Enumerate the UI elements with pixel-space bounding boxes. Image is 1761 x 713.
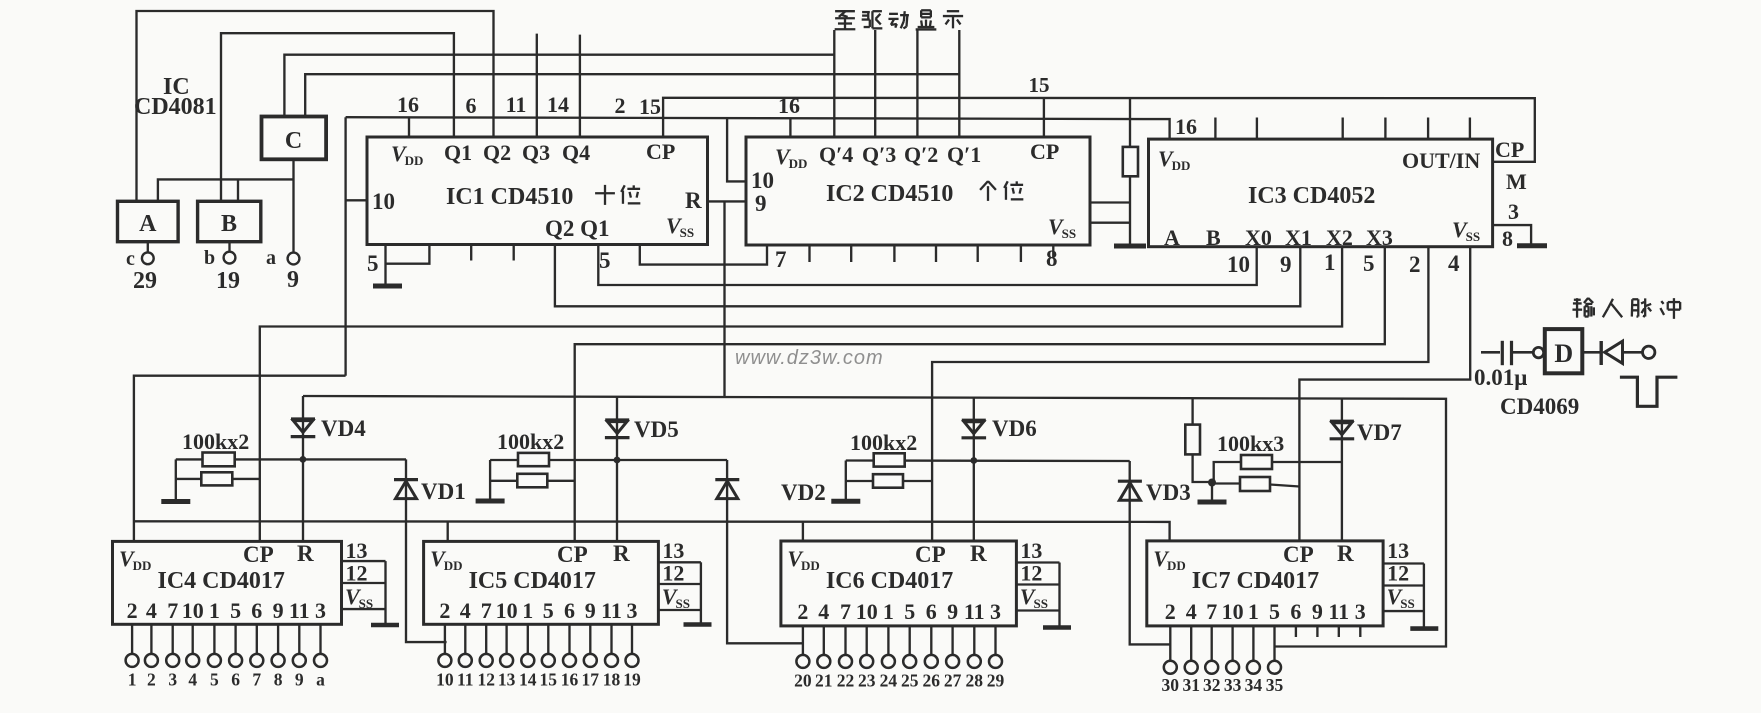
- svg-text:13: 13: [1020, 538, 1042, 563]
- svg-text:15: 15: [1029, 73, 1050, 97]
- wire IC7 R6 lead left: [1212, 482, 1240, 484]
- svg-text:1: 1: [522, 598, 533, 623]
- svg-text:OUT/IN: OUT/IN: [1402, 148, 1480, 173]
- svg-text:10: 10: [1222, 599, 1244, 624]
- svg-text:9: 9: [1312, 599, 1323, 624]
- svg-text:6: 6: [564, 598, 575, 623]
- svg-text:4: 4: [1186, 599, 1197, 624]
- svg-text:11: 11: [1328, 599, 1349, 624]
- ground at IC5 resistors: [476, 499, 505, 504]
- wire R-line (diode OR reset bus) with drop to IC7 jack35: [303, 396, 1446, 647]
- svg-text:6: 6: [231, 670, 240, 690]
- svg-text:IC2 CD4510: IC2 CD4510: [826, 181, 953, 207]
- svg-text:4: 4: [460, 598, 471, 623]
- svg-text:11: 11: [506, 92, 527, 117]
- svg-text:9: 9: [947, 599, 958, 624]
- svg-text:Q2 Q1: Q2 Q1: [545, 216, 610, 241]
- svg-text:27: 27: [944, 671, 962, 691]
- capacitor 0.01u lead left: [1481, 351, 1500, 354]
- svg-text:M: M: [1506, 169, 1527, 194]
- wire net B-input L2 to IC1 Q1 pin: [221, 33, 454, 201]
- svg-text:3: 3: [315, 598, 326, 623]
- svg-text:CP: CP: [1030, 139, 1059, 164]
- svg-text:IC6 CD4017: IC6 CD4017: [826, 568, 953, 594]
- wire IC4 R2 lead to CP: [176, 478, 260, 480]
- svg-text:100kx2: 100kx2: [497, 429, 564, 454]
- wire IC7 R5 lead left: [1214, 462, 1241, 482]
- svg-text:4: 4: [818, 599, 829, 624]
- IC7 right unused bottom stubs: [1295, 626, 1297, 637]
- svg-text:R: R: [970, 541, 987, 566]
- label shi-wei (tens): [595, 192, 615, 194]
- svg-text:VD3: VD3: [1146, 480, 1191, 505]
- IC1 CD4510 box: [367, 137, 708, 245]
- wire CP bus from IC1 CP to IC3 CP: [663, 98, 1535, 162]
- svg-text:25: 25: [901, 671, 919, 691]
- wire IC1 R to IC2 pin 9: [708, 200, 747, 202]
- svg-text:R: R: [685, 188, 702, 213]
- wire IC1 unused stub a: [470, 245, 472, 261]
- svg-text:IC7 CD4017: IC7 CD4017: [1192, 568, 1319, 594]
- wire IC1 Q3 pin 11 vertical: [536, 34, 538, 137]
- wire VDD down to IC4: [134, 376, 346, 542]
- diode VD2: [715, 478, 739, 481]
- svg-text:A: A: [1164, 225, 1180, 250]
- svg-text:2: 2: [439, 598, 450, 623]
- wire IC7 R5 lead right to VD7: [1272, 461, 1342, 463]
- svg-text:4: 4: [188, 670, 197, 690]
- svg-text:10: 10: [372, 189, 395, 214]
- wire C output to jack a: [292, 159, 294, 252]
- wire net L4 from C box input to IC2 Q'1: [305, 74, 959, 116]
- svg-text:19: 19: [623, 670, 641, 690]
- svg-text:9: 9: [295, 670, 304, 690]
- svg-text:5: 5: [904, 599, 915, 624]
- diode VD1: [394, 478, 418, 481]
- wire IC1 pin5 ground stub: [384, 245, 386, 286]
- svg-text:16: 16: [1175, 114, 1197, 139]
- IC7 output pin stubs and jacks 30-35: [1169, 626, 1171, 661]
- diode at input jack: [1599, 341, 1602, 365]
- IC3 CD4052 box: [1149, 139, 1493, 247]
- svg-text:CP: CP: [243, 542, 274, 567]
- junction dot at VD5: [614, 457, 621, 464]
- svg-text:R: R: [297, 541, 314, 566]
- wire IC6 VDD stub: [802, 522, 804, 542]
- svg-text:33: 33: [1224, 675, 1242, 695]
- svg-text:SS: SS: [1466, 229, 1480, 244]
- resistor pull (IC2 right): [1123, 147, 1138, 176]
- wire IC2 pullup resistor bottom to ground: [1129, 176, 1131, 245]
- wire IC5 R4 lead to CP: [490, 480, 575, 482]
- wire IC5 R vertical through VD5: [616, 396, 618, 541]
- junction dot IC7 resistor node: [1208, 479, 1216, 487]
- wire IC1 pin 10 stub: [346, 199, 367, 201]
- IC7 CD4017 box: [1147, 541, 1383, 626]
- svg-text:16: 16: [778, 93, 800, 118]
- svg-text:VD4: VD4: [321, 416, 366, 441]
- wire A output stub: [147, 242, 149, 253]
- resistor 100k (IC5 lower): [517, 474, 547, 488]
- IC7 pins 13/12/Vss ladder to ground: [1383, 562, 1424, 564]
- wire VDD drop to IC2 pin 10: [727, 118, 746, 182]
- svg-text:DD: DD: [133, 558, 152, 573]
- svg-text:DD: DD: [1167, 558, 1186, 573]
- svg-text:100kx2: 100kx2: [850, 430, 917, 455]
- resistor 100k (IC4 upper): [203, 453, 235, 467]
- wire B output stub: [228, 242, 230, 252]
- svg-text:SS: SS: [680, 225, 694, 240]
- svg-text:R: R: [1337, 541, 1354, 566]
- svg-text:9: 9: [755, 191, 767, 216]
- wire B second input: [237, 179, 239, 201]
- wire net X3/4: IC7 CP to IC3 X3: [1299, 247, 1470, 541]
- wire IC1 pin 16 stub: [408, 117, 410, 137]
- svg-text:100kx3: 100kx3: [1217, 431, 1284, 456]
- wire VD1 vertical to IC5 jack10 stub: [406, 459, 447, 642]
- wire IC2 pullup resistor top: [1129, 98, 1131, 147]
- resistor 100k (IC7 lower): [1240, 477, 1270, 491]
- svg-text:VD7: VD7: [1357, 420, 1402, 445]
- svg-text:X1: X1: [1285, 225, 1312, 250]
- resistor 100k (IC7 upper): [1241, 455, 1272, 469]
- svg-text:SS: SS: [1062, 226, 1076, 241]
- svg-text:X3: X3: [1366, 225, 1393, 250]
- svg-text:11: 11: [601, 598, 622, 623]
- svg-text:32: 32: [1203, 675, 1221, 695]
- svg-text:5: 5: [1363, 251, 1375, 276]
- svg-text:A: A: [139, 211, 157, 237]
- svg-text:1: 1: [1324, 250, 1336, 275]
- svg-text:5: 5: [1269, 599, 1280, 624]
- svg-text:VD1: VD1: [421, 479, 466, 504]
- svg-text:7: 7: [775, 247, 787, 272]
- svg-text:Q4: Q4: [562, 140, 590, 165]
- svg-text:5: 5: [367, 251, 379, 276]
- svg-text:28: 28: [966, 671, 984, 691]
- svg-text:B: B: [1206, 225, 1221, 250]
- wire IC2 pin 16 stub: [789, 118, 791, 137]
- svg-text:4: 4: [146, 598, 157, 623]
- wire IC1 pin5 branch: [386, 245, 430, 264]
- svg-text:www.dz3w.com: www.dz3w.com: [735, 347, 884, 369]
- diode VD5: [605, 418, 629, 421]
- wire IC1 unused stub b: [513, 245, 515, 261]
- svg-text:18: 18: [603, 670, 621, 690]
- wire VD2 vertical to IC6 jack20 stub: [727, 460, 803, 643]
- svg-text:31: 31: [1182, 675, 1200, 695]
- IC6 output pin stubs and jacks 20-29: [802, 626, 804, 655]
- wire VDD bus L5 to IC3 pin 16: [346, 117, 1170, 139]
- svg-text:Q′2: Q′2: [904, 142, 938, 167]
- svg-text:B: B: [221, 211, 237, 237]
- svg-text:6: 6: [926, 599, 937, 624]
- svg-text:SS: SS: [1034, 596, 1048, 611]
- label ge-wei (units): [980, 181, 988, 190]
- svg-text:CP: CP: [1283, 542, 1314, 567]
- svg-text:10: 10: [751, 168, 774, 193]
- svg-text:8: 8: [1046, 246, 1058, 271]
- svg-text:3: 3: [990, 599, 1001, 624]
- wire IC1 Q2out to IC3 B: [555, 245, 1300, 307]
- svg-text:Q2: Q2: [483, 140, 511, 165]
- wire D output: [1582, 351, 1600, 354]
- svg-text:SS: SS: [676, 596, 690, 611]
- svg-text:6: 6: [1290, 599, 1301, 624]
- svg-text:22: 22: [837, 671, 855, 691]
- jack a/9 terminal: [288, 253, 300, 265]
- wire net X2/2: IC6 CP to IC3 X2: [932, 247, 1428, 542]
- wire VD3 vertical to IC7 jack30 stub: [1130, 461, 1171, 644]
- svg-text:SS: SS: [1400, 596, 1414, 611]
- svg-text:VD6: VD6: [992, 416, 1037, 441]
- svg-text:2: 2: [1165, 599, 1176, 624]
- wire display line Q'2: [916, 30, 918, 137]
- IC5 pins 13/12/Vss ladder to ground: [658, 561, 701, 563]
- wire VDD left vertical to IC1 pin 10 and down: [344, 117, 346, 376]
- svg-text:SS: SS: [359, 596, 373, 611]
- wire IC3 top unused pin stubs: [1214, 118, 1216, 140]
- svg-text:IC5 CD4017: IC5 CD4017: [469, 568, 596, 594]
- wire IC1 Q4 pin 14 vertical: [579, 35, 581, 137]
- svg-text:b: b: [204, 247, 215, 269]
- svg-text:23: 23: [858, 671, 876, 691]
- inverter input bubble: [1533, 347, 1543, 357]
- svg-text:VD2: VD2: [781, 480, 826, 505]
- IC2 CD4510 box: [746, 137, 1090, 245]
- negative pulse waveform icon: [1620, 377, 1678, 406]
- wire IC7 resistor ground stem: [1211, 482, 1213, 501]
- svg-text:15: 15: [540, 670, 558, 690]
- wire IC2 Vss to resistor ground line: [1090, 222, 1130, 224]
- wire display line Q'1: [958, 30, 960, 137]
- svg-text:8: 8: [1502, 226, 1513, 251]
- wire IC6 group junction line to VD3: [846, 459, 1130, 462]
- svg-text:100kx2: 100kx2: [182, 429, 249, 454]
- wire IC6 resistor ground leg: [845, 461, 847, 501]
- svg-text:4: 4: [1448, 251, 1460, 276]
- svg-text:DD: DD: [405, 153, 424, 168]
- svg-text:7: 7: [252, 670, 261, 690]
- wire net X0/1: IC4 CP to IC3 X0: [260, 247, 1342, 542]
- svg-text:13: 13: [346, 538, 368, 563]
- svg-text:2: 2: [615, 93, 626, 118]
- wire diode to input jack: [1623, 351, 1643, 354]
- svg-text:3: 3: [1508, 199, 1519, 224]
- svg-text:VD5: VD5: [634, 417, 679, 442]
- ground at IC6 resistors: [831, 499, 860, 504]
- wire IC7 R vertical through VD7: [1341, 399, 1343, 541]
- svg-text:CP: CP: [1495, 137, 1524, 162]
- svg-text:Q′1: Q′1: [947, 142, 981, 167]
- wire IC7 R6 lead right to CP: [1270, 485, 1299, 487]
- svg-text:a: a: [266, 247, 276, 269]
- svg-text:14: 14: [547, 92, 569, 117]
- capacitor 0.01u plates: [1501, 341, 1504, 365]
- svg-text:7: 7: [1206, 599, 1217, 624]
- wire net X1/5: IC5 CP to IC3 X1: [575, 247, 1385, 542]
- svg-text:10: 10: [496, 598, 518, 623]
- svg-text:CP: CP: [557, 542, 588, 567]
- svg-text:CD4069: CD4069: [1500, 394, 1579, 419]
- svg-text:8: 8: [274, 670, 283, 690]
- jack b/19 terminal: [224, 252, 236, 264]
- svg-text:CP: CP: [646, 139, 675, 164]
- wire IC6 R vertical through VD6: [973, 397, 975, 541]
- svg-text:C: C: [285, 128, 302, 154]
- diode VD7: [1330, 420, 1354, 423]
- svg-text:1: 1: [1248, 599, 1259, 624]
- svg-text:R: R: [613, 541, 630, 566]
- svg-text:DD: DD: [444, 558, 463, 573]
- jack c/29 terminal: [142, 252, 154, 264]
- wire IC2 right edge to resistor line: [1090, 201, 1130, 203]
- svg-text:DD: DD: [789, 156, 808, 171]
- svg-text:29: 29: [133, 268, 157, 294]
- svg-text:12: 12: [1387, 561, 1409, 586]
- input jack terminal: [1643, 346, 1655, 358]
- svg-text:X0: X0: [1245, 225, 1272, 250]
- svg-text:34: 34: [1245, 675, 1263, 695]
- svg-text:13: 13: [498, 670, 516, 690]
- wire IC4 group junction line to VD1: [176, 458, 406, 460]
- ground at IC3 pin 8: [1517, 243, 1547, 248]
- inverter D box (CD4069): [1545, 329, 1583, 373]
- svg-text:c: c: [126, 248, 135, 270]
- wire gate input line from C output to A and B: [158, 179, 294, 201]
- svg-text:10: 10: [182, 598, 204, 623]
- wire VDD rail for IC4-IC7: [134, 521, 1170, 541]
- svg-text:24: 24: [880, 671, 898, 691]
- gate B box (CD4081): [198, 201, 261, 241]
- svg-text:IC3 CD4052: IC3 CD4052: [1248, 183, 1375, 209]
- svg-text:5: 5: [543, 598, 554, 623]
- resistor 100k (IC6 upper): [874, 453, 905, 466]
- svg-text:21: 21: [815, 671, 833, 691]
- svg-text:10: 10: [1227, 252, 1250, 277]
- svg-text:7: 7: [840, 599, 851, 624]
- svg-text:CP: CP: [915, 542, 946, 567]
- IC4 pins 13/12/Vss ladder to ground: [342, 560, 386, 562]
- resistor 100k (IC5 upper): [518, 453, 549, 466]
- svg-text:IC4 CD4017: IC4 CD4017: [158, 568, 285, 594]
- svg-text:35: 35: [1266, 675, 1284, 695]
- svg-text:19: 19: [216, 268, 240, 294]
- svg-text:5: 5: [230, 598, 241, 623]
- svg-text:1: 1: [883, 599, 894, 624]
- wire IC4 resistor ground leg: [175, 459, 177, 501]
- IC6 CD4017 box: [781, 541, 1017, 626]
- svg-text:Q3: Q3: [522, 140, 550, 165]
- wire IC1 Vss pin to IC2 pin 7: [640, 245, 767, 265]
- svg-text:16: 16: [561, 670, 579, 690]
- svg-text:3: 3: [1355, 599, 1366, 624]
- wire IC5 resistor ground leg: [489, 460, 491, 500]
- svg-text:9: 9: [273, 598, 284, 623]
- svg-text:12: 12: [1020, 561, 1042, 586]
- svg-text:7: 7: [481, 598, 492, 623]
- junction dot at VD4: [300, 456, 307, 463]
- diode VD3: [1118, 480, 1142, 483]
- svg-text:2: 2: [147, 670, 156, 690]
- wire display line Q'3: [874, 30, 876, 137]
- svg-text:13: 13: [662, 538, 684, 563]
- gate C box (CD4081): [262, 117, 327, 160]
- svg-text:9: 9: [287, 267, 299, 293]
- svg-text:D: D: [1554, 339, 1573, 368]
- junction dot at VD6: [970, 457, 977, 464]
- resistor 100k (IC7 vertical): [1185, 425, 1200, 455]
- svg-text:CD4081: CD4081: [134, 94, 217, 120]
- IC5 output pin stubs and jacks 10-19: [444, 624, 446, 654]
- wire capacitor to inverter bubble: [1512, 351, 1534, 354]
- wire net L3 from C box input to IC2 Q'4: [284, 55, 834, 117]
- ground at IC2 resistor: [1114, 244, 1146, 249]
- svg-text:9: 9: [585, 598, 596, 623]
- svg-text:10: 10: [436, 670, 454, 690]
- svg-text:12: 12: [477, 670, 495, 690]
- svg-text:3: 3: [627, 598, 638, 623]
- wire IC5 VDD stub: [447, 522, 449, 542]
- svg-text:10: 10: [856, 599, 878, 624]
- svg-text:12: 12: [662, 561, 684, 586]
- resistor 100k (IC4 lower): [201, 472, 232, 485]
- svg-text:IC1 CD4510: IC1 CD4510: [446, 184, 573, 210]
- wire net A-input from top bus L1 to IC1 Q2 pin: [137, 11, 494, 201]
- ground at IC7 resistors: [1198, 500, 1227, 505]
- svg-text:30: 30: [1162, 675, 1180, 695]
- svg-text:2: 2: [127, 598, 138, 623]
- svg-text:0.01μ: 0.01μ: [1474, 365, 1527, 390]
- svg-text:DD: DD: [1172, 158, 1191, 173]
- resistor 100k (IC6 lower): [873, 474, 903, 488]
- wire IC4 R vertical through VD4: [302, 396, 304, 541]
- diode VD4: [291, 417, 315, 420]
- wire IC6 R lead to CP: [846, 480, 932, 482]
- wire IC2 unused stubs: [808, 245, 810, 262]
- diode VD6: [962, 419, 986, 422]
- svg-text:13: 13: [1387, 538, 1409, 563]
- svg-text:DD: DD: [801, 558, 820, 573]
- svg-text:14: 14: [519, 670, 537, 690]
- svg-text:5: 5: [210, 670, 219, 690]
- wire IC2 CP pin 15 stub: [1043, 98, 1045, 137]
- ground at IC1 pin 5: [373, 284, 402, 289]
- svg-text:7: 7: [167, 598, 178, 623]
- svg-text:20: 20: [794, 671, 812, 691]
- svg-text:29: 29: [987, 671, 1005, 691]
- svg-text:12: 12: [346, 561, 368, 586]
- IC4 output pin stubs and jacks 1-10: [131, 624, 133, 654]
- IC6 pins 13/12/Vss ladder to ground: [1016, 561, 1059, 563]
- svg-text:11: 11: [457, 670, 474, 690]
- wire display line Q'4: [833, 30, 835, 137]
- svg-text:11: 11: [289, 598, 310, 623]
- svg-text:5: 5: [599, 248, 611, 273]
- svg-text:3: 3: [168, 670, 177, 690]
- svg-text:17: 17: [582, 670, 600, 690]
- wire IC7 vertical 100k resistor line: [1193, 399, 1212, 482]
- svg-text:2: 2: [1409, 252, 1421, 277]
- IC5 CD4017 box: [424, 541, 659, 624]
- svg-text:1: 1: [209, 598, 220, 623]
- svg-text:a: a: [316, 670, 325, 690]
- svg-text:Q′3: Q′3: [862, 142, 896, 167]
- gate A box (CD4081): [118, 201, 179, 241]
- wire IC5 group junction line to VD2: [490, 459, 727, 461]
- ground at IC4 resistors: [161, 499, 190, 504]
- svg-text:X2: X2: [1326, 225, 1353, 250]
